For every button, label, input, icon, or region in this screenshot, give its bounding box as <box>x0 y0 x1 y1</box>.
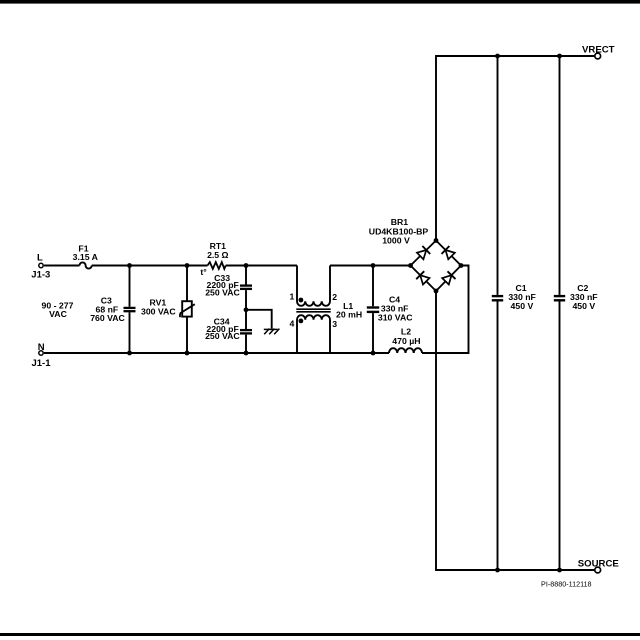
terminal VRECT <box>595 53 601 59</box>
node: C33/C34 midpoint junction <box>244 307 249 312</box>
varistor RV1 300 VAC <box>186 266 188 354</box>
node: C4 top junction <box>371 263 376 268</box>
svg-text:20 mH: 20 mH <box>336 310 362 320</box>
capacitor C4 330 nF 310 VAC <box>372 266 374 354</box>
wire: RT1 to transformer pin 1 <box>226 265 297 267</box>
node: C3 bottom junction <box>127 351 132 356</box>
node: C2 bottom <box>557 568 562 573</box>
svg-text:2: 2 <box>332 292 337 302</box>
node: bridge AC left vertex <box>408 263 413 268</box>
svg-text:450 V: 450 V <box>511 301 534 311</box>
wire: bridge + to VRECT rail <box>436 56 594 241</box>
capacitor C3 68 nF 760 VAC <box>129 266 131 354</box>
terminal J1-3 (L) <box>39 263 43 267</box>
svg-text:760 VAC: 760 VAC <box>90 313 125 323</box>
wire: N terminal to transformer pin 4 <box>44 352 297 354</box>
svg-text:250 VAC: 250 VAC <box>205 287 240 297</box>
svg-text:L: L <box>37 252 43 263</box>
wire: L2 to bridge AC right riser <box>422 266 469 354</box>
capacitor C34 2200 pF 250 VAC <box>245 310 247 353</box>
svg-text:J1-1: J1-1 <box>31 358 51 369</box>
winding 4-3 <box>297 315 330 353</box>
svg-text:1: 1 <box>289 292 294 302</box>
svg-text:J1-3: J1-3 <box>31 270 50 281</box>
svg-text:4: 4 <box>289 319 294 329</box>
svg-text:300 VAC: 300 VAC <box>141 307 176 317</box>
node: C33 top junction <box>244 263 249 268</box>
top border rule <box>0 0 640 4</box>
diode D-topright (AC-R to +) <box>446 250 455 259</box>
svg-text:VAC: VAC <box>49 309 67 319</box>
wire: bridge - to SOURCE rail <box>436 291 594 570</box>
svg-text:PI-8880-112118: PI-8880-112118 <box>541 579 591 588</box>
core lines <box>296 308 330 310</box>
svg-text:VRECT: VRECT <box>582 44 615 55</box>
wire: midpoint to ground <box>246 310 272 329</box>
wire: fuse to RT1 <box>92 265 208 267</box>
thermistor RT1 2.5 ohm <box>208 262 226 269</box>
svg-text:450 V: 450 V <box>572 301 595 311</box>
svg-text:t°: t° <box>200 267 207 277</box>
common-mode choke L1 20 mH winding 1-2 <box>297 266 330 306</box>
svg-text:SOURCE: SOURCE <box>578 559 620 570</box>
node: C3 top junction <box>127 263 132 268</box>
node: bridge - vertex <box>434 289 439 294</box>
diode D-topleft (AC-L to +) <box>417 250 426 259</box>
svg-text:2.5 Ω: 2.5 Ω <box>207 250 228 260</box>
capacitor C33 2200 pF 250 VAC <box>245 266 247 310</box>
terminal J1-1 (N) <box>39 351 43 355</box>
svg-text:250 VAC: 250 VAC <box>205 331 240 341</box>
capacitor C1 330 nF 450 V <box>497 56 499 570</box>
node: C1 top <box>495 54 500 59</box>
ground (earth) symbol <box>264 329 280 335</box>
svg-text:N: N <box>38 342 45 353</box>
node: C2 top <box>557 54 562 59</box>
node: C34 bottom junction <box>244 351 249 356</box>
svg-text:310 VAC: 310 VAC <box>378 313 413 323</box>
fuse F1 3.15 A <box>80 262 92 268</box>
svg-text:470 µH: 470 µH <box>392 336 420 346</box>
diode D-bottomleft (- to AC-L) <box>420 275 429 284</box>
node: bridge AC right vertex <box>459 263 464 268</box>
wire: L terminal to fuse F1 <box>44 265 80 267</box>
inductor L2 470 uH <box>389 348 422 353</box>
node: C1 bottom <box>495 568 500 573</box>
diode D-bottomright (- to AC-R) <box>442 275 451 284</box>
terminal SOURCE <box>595 567 601 573</box>
svg-text:3.15 A: 3.15 A <box>73 252 99 262</box>
phasing dot pin 1 <box>299 298 304 303</box>
wire: pin 2 to bridge AC left <box>330 265 411 267</box>
wire: pin 3 to L2 <box>297 352 389 354</box>
bridge rectifier BR1 UD4KB100-BP 1000 V <box>411 241 462 292</box>
node: bridge + vertex <box>434 238 439 243</box>
node: RV1 top junction <box>185 263 190 268</box>
svg-text:3: 3 <box>332 319 337 329</box>
capacitor C2 330 nF 450 V <box>559 56 561 570</box>
node: RV1 bottom junction <box>185 351 190 356</box>
phasing dot pin 4 <box>299 319 304 324</box>
svg-text:1000 V: 1000 V <box>382 236 410 246</box>
node: C4 bottom junction <box>371 351 376 356</box>
bottom border rule <box>0 633 640 636</box>
